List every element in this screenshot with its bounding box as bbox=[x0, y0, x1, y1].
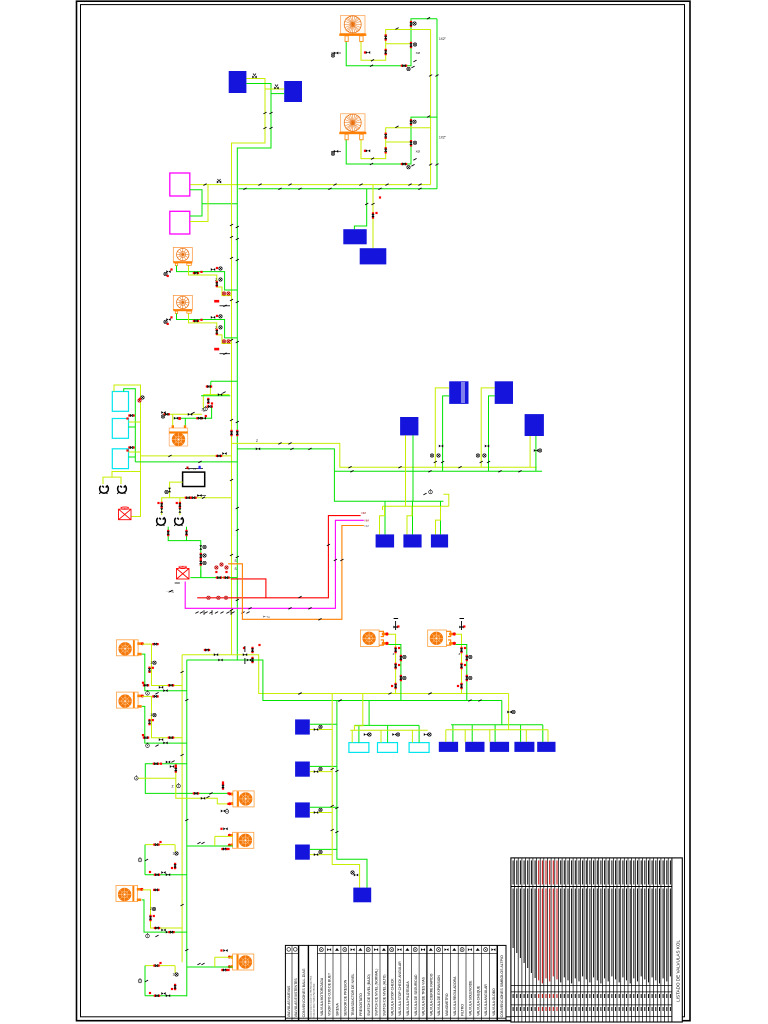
svg-text:XØ: XØ bbox=[416, 149, 421, 153]
svg-text:Instrumentation Symbol Specifi: Instrumentation Symbol Specification bbox=[313, 982, 316, 1017]
svg-text:VALVULA CHEQUE: VALVULA CHEQUE bbox=[476, 985, 480, 1016]
svg-text:NM: NM bbox=[365, 519, 370, 523]
svg-text:VALVULA DE SEGURIDAD: VALVULA DE SEGURIDAD bbox=[414, 974, 418, 1016]
svg-text:FILTRO: FILTRO bbox=[461, 1004, 465, 1016]
svg-text:VALVULA GLOBO: VALVULA GLOBO bbox=[492, 988, 496, 1016]
svg-text:VALVULA CIERRE RAPIDO: VALVULA CIERRE RAPIDO bbox=[429, 973, 433, 1016]
svg-text:SIRENA: SIRENA bbox=[336, 1003, 340, 1016]
svg-text:1: 1 bbox=[173, 852, 175, 856]
svg-text:1X2″: 1X2″ bbox=[439, 37, 447, 41]
svg-text:Convenciones acorde con ISA St: Convenciones acorde con ISA Standard S5.… bbox=[310, 975, 313, 1018]
svg-text:VALVULA SOLENOIDE: VALVULA SOLENOIDE bbox=[469, 980, 473, 1016]
svg-text:S: S bbox=[235, 567, 237, 571]
svg-text:Z: Z bbox=[172, 785, 174, 789]
svg-text:VALVULAS EXISTENTES: VALVULAS EXISTENTES bbox=[294, 978, 298, 1018]
svg-text:VALVULA REGULADORA: VALVULA REGULADORA bbox=[453, 976, 457, 1016]
svg-text:SWITCH DE NIVEL (BAJO): SWITCH DE NIVEL (BAJO) bbox=[367, 974, 371, 1016]
svg-text:S: S bbox=[235, 559, 237, 563]
svg-text:⊢⊣x: ⊢⊣x bbox=[263, 615, 270, 619]
svg-text:MANOMETRO: MANOMETRO bbox=[445, 993, 449, 1016]
svg-text:VALVULA PILOTEADA: VALVULA PILOTEADA bbox=[406, 981, 410, 1016]
svg-text:1: 1 bbox=[173, 973, 175, 977]
svg-text:Z: Z bbox=[150, 907, 152, 911]
svg-text:1X2″: 1X2″ bbox=[439, 135, 447, 139]
svg-text:Z: Z bbox=[151, 713, 153, 717]
svg-text:VALVULA DE EXPANSION: VALVULA DE EXPANSION bbox=[437, 975, 441, 1016]
svg-text:SWITCH DE NIVEL (NORMAL): SWITCH DE NIVEL (NORMAL) bbox=[375, 969, 379, 1016]
svg-text:NM: NM bbox=[365, 524, 370, 528]
svg-text:CONVENCIONES BALL-DIAG: CONVENCIONES BALL-DIAG bbox=[302, 968, 306, 1017]
svg-text:TRANSDUCTOR DE NIVEL: TRANSDUCTOR DE NIVEL bbox=[351, 973, 355, 1015]
svg-text:SENSOR DE PRESION: SENSOR DE PRESION bbox=[343, 979, 347, 1016]
svg-text:Z: Z bbox=[393, 652, 395, 656]
svg-text:VISOR TIPO OJO DE BUEY: VISOR TIPO OJO DE BUEY bbox=[328, 972, 332, 1016]
svg-text:CONVENCIONES SIMBOLOS ALTPIO: CONVENCIONES SIMBOLOS ALTPIO bbox=[500, 955, 504, 1017]
svg-text:LISTADO DE VALVULAS KOL: LISTADO DE VALVULAS KOL bbox=[676, 940, 681, 1002]
svg-text:Z: Z bbox=[459, 652, 461, 656]
svg-text:VALVULA MOTORIZADA: VALVULA MOTORIZADA bbox=[320, 977, 324, 1016]
svg-text:PRESOSTATO: PRESOSTATO bbox=[359, 993, 363, 1016]
svg-text:SWITCH DE NIVEL (ALTO): SWITCH DE NIVEL (ALTO) bbox=[383, 975, 387, 1016]
svg-text:VALVULA DE TRES VIAS: VALVULA DE TRES VIAS bbox=[422, 976, 426, 1016]
svg-text:VALVULA STOP CHECK: VALVULA STOP CHECK bbox=[390, 978, 394, 1016]
svg-text:NM: NM bbox=[362, 511, 367, 515]
svg-text:VALVULA ANGULAR: VALVULA ANGULAR bbox=[484, 984, 488, 1016]
svg-text:Z: Z bbox=[151, 661, 153, 665]
svg-text:Z: Z bbox=[256, 439, 258, 443]
svg-text:Z: Z bbox=[202, 408, 204, 412]
svg-text:VALVULAS NUEVAS: VALVULAS NUEVAS bbox=[287, 985, 291, 1017]
svg-text:VALVULA STOP CHECK ANGULAR: VALVULA STOP CHECK ANGULAR bbox=[398, 961, 402, 1016]
svg-text:XØ: XØ bbox=[416, 51, 421, 55]
svg-text:N: N bbox=[194, 467, 196, 471]
